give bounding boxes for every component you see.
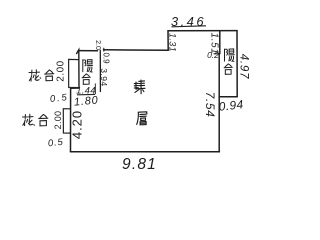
wall right main 7.54	[218, 31, 221, 152]
svg-text:3.46: 3.46	[171, 14, 206, 29]
svg-text:0.94: 0.94	[218, 97, 244, 114]
flower box lower (hua tai)	[63, 109, 70, 133]
hanzi si (four) interior	[134, 80, 145, 94]
svg-text:0.5: 0.5	[49, 92, 69, 105]
dim underline 1.44	[77, 93, 95, 95]
wall right balcony outer	[236, 31, 238, 97]
hanzi hua (flower) upper	[29, 70, 41, 81]
wall balcony bottom 0.94	[219, 96, 237, 98]
hanzi tai (platform) left balcony	[82, 74, 90, 84]
wall step vertical 1.31	[167, 31, 169, 50]
svg-text:2.00: 2.00	[53, 111, 63, 130]
hanzi tai (platform) lower	[39, 114, 48, 125]
svg-text:4.97: 4.97	[238, 54, 250, 80]
dim underline 3.46	[172, 26, 207, 27]
hanzi tai (platform) right balcony	[224, 64, 232, 74]
wall bottom 9.81	[71, 151, 220, 153]
svg-text:0.9: 0.9	[102, 52, 111, 64]
wall left lower 4.20	[70, 88, 72, 152]
hanzi tai (platform) upper	[45, 70, 54, 81]
tick top jog	[103, 48, 105, 51]
svg-text:0.2: 0.2	[207, 50, 219, 60]
tick 0.2 jog	[214, 53, 220, 55]
svg-text:4.20: 4.20	[70, 110, 85, 139]
wall left step 0.5	[71, 87, 79, 89]
wall left upper	[77, 50, 79, 88]
svg-text:0.5: 0.5	[47, 137, 64, 150]
wall top-right horizontal 3.46	[168, 30, 237, 32]
dim tick right of 1.44	[94, 84, 96, 95]
svg-text:2.0: 2.0	[94, 40, 101, 50]
svg-text:3.94: 3.94	[99, 68, 109, 87]
wall top-left horizontal	[78, 50, 168, 51]
svg-text:7.54: 7.54	[203, 92, 217, 118]
flower box upper (hua tai)	[69, 59, 79, 87]
svg-text:1.31: 1.31	[168, 33, 178, 52]
svg-text:1.80: 1.80	[74, 94, 100, 108]
hanzi ceng (floor) interior	[137, 112, 147, 125]
svg-text:9.81: 9.81	[122, 156, 157, 173]
hanzi hua (flower) lower with dot	[23, 114, 35, 125]
hanzi yang (sun/balcony) left vertical	[83, 60, 93, 72]
svg-text:2.00: 2.00	[56, 60, 67, 81]
interior wall vertical 3.94	[99, 50, 101, 91]
hanzi yang (balcony) right vertical	[225, 49, 235, 61]
